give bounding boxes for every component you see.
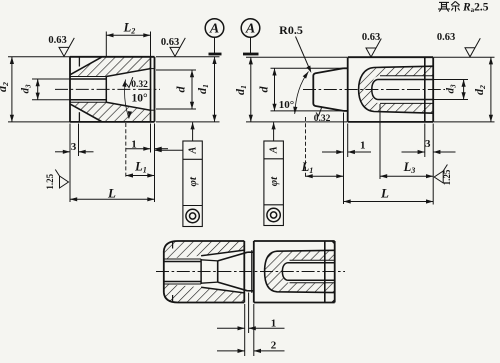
angle dimension 10deg (part 2) — [295, 72, 309, 115]
dimension d3 (part 2) — [434, 79, 468, 81]
svg-text:R0.5: R0.5 — [279, 23, 303, 37]
part 2 blind thread bore d3 — [372, 80, 378, 100]
assembly part 1 thread — [164, 258, 201, 260]
assembly part 2 thread bore — [282, 263, 287, 281]
svg-text:2: 2 — [271, 340, 277, 352]
part 2 bush outline — [359, 66, 434, 113]
part 1 section hatch lower wall — [70, 102, 150, 121]
part 2 conical boss 10deg — [313, 68, 343, 111]
concentricity tolerance frame (part 1) — [183, 141, 202, 227]
svg-text:0.63: 0.63 — [362, 32, 380, 43]
dimension d3 (part 1) — [32, 78, 70, 80]
assembly part 1 outline — [164, 241, 245, 303]
assembly socket taper — [201, 250, 244, 256]
svg-text:3: 3 — [71, 141, 77, 153]
svg-text:d: d — [257, 86, 271, 93]
svg-text:3: 3 — [425, 138, 431, 150]
angle dimension 10deg (part 1) — [125, 80, 129, 119]
svg-text:10°: 10° — [131, 92, 148, 104]
dimension d2 (part 2) — [434, 56, 495, 58]
part 1 internal thread d3 — [70, 76, 106, 78]
svg-text:0.63: 0.63 — [161, 37, 179, 48]
dimension L (part 1) — [70, 198, 155, 200]
svg-text:0.63: 0.63 — [48, 35, 66, 46]
dimension d (part 2) — [271, 67, 344, 69]
dimension L2 (part 1) — [105, 32, 107, 57]
dimension d1 (part 2) — [246, 56, 347, 58]
section marks circled A — [205, 19, 224, 38]
assembly part 2 bush hatch — [265, 250, 335, 292]
svg-text:d: d — [174, 86, 188, 93]
svg-text:1.25: 1.25 — [442, 169, 452, 185]
svg-text:Ra2.5: Ra2.5 — [462, 2, 489, 15]
part 1 section hatch upper wall — [70, 57, 150, 76]
concentricity tolerance frame (part 2) — [264, 141, 284, 226]
dimension 3 (part 2 bottom wall) — [424, 124, 426, 158]
dimension d (part 1) — [156, 69, 196, 71]
dimension d1 (part 1) — [156, 56, 220, 58]
part 1 tapered socket 10deg — [106, 69, 150, 77]
assembly part 1 hatch upper — [164, 241, 245, 259]
part 2 boss land — [344, 67, 348, 69]
svg-text:1: 1 — [271, 317, 277, 329]
svg-text:1: 1 — [360, 139, 366, 151]
svg-text:0.63: 0.63 — [437, 32, 455, 43]
roughness 0.32 on cone (part 2) — [316, 107, 322, 116]
dimension L3 (part 2) — [379, 104, 381, 179]
svg-text:1: 1 — [131, 138, 137, 150]
dimension 3 (part 1 flare length) — [69, 124, 71, 157]
svg-text:0.32: 0.32 — [131, 80, 148, 90]
assembly part 2 cone seated — [201, 260, 218, 261]
part 2 threaded bush local section hatch — [359, 66, 434, 113]
svg-text:L: L — [380, 185, 389, 200]
dimension 1 (part 2 land) — [343, 113, 345, 205]
svg-text:A: A — [269, 146, 280, 154]
dimension L1 (part 2) — [305, 117, 307, 179]
assembly part 2 body outline — [253, 241, 255, 303]
svg-text:φt: φt — [268, 176, 280, 186]
svg-text:10°: 10° — [279, 99, 294, 111]
svg-text:A: A — [188, 147, 199, 155]
note: qi-yu Ra2.5 (surface roughness, rest) — [438, 2, 450, 12]
svg-text:A: A — [209, 22, 219, 37]
dimension 1 (part 1 mouth land) — [150, 124, 152, 153]
part 1 centerline — [55, 88, 160, 90]
dimension L1 (part 1) — [125, 123, 127, 179]
svg-text:L: L — [107, 185, 116, 200]
part 2 body outline — [347, 57, 349, 122]
svg-text:A: A — [245, 22, 255, 37]
dimension L (part 2) — [432, 124, 434, 205]
assembly part 1 hatch lower — [164, 284, 245, 303]
svg-text:φt: φt — [187, 176, 199, 186]
part 1 body outline — [70, 56, 155, 58]
svg-text:1.25: 1.25 — [45, 173, 55, 189]
assembly gap dimensions 1 and 2 — [244, 304, 246, 356]
assembly centerline — [156, 271, 345, 273]
part 2 centerline — [303, 89, 445, 91]
dimension d2 (part 1) — [8, 56, 70, 58]
roughness 1.25 mark (part 2) — [434, 171, 443, 183]
svg-text:d2: d2 — [0, 82, 10, 92]
roughness 0.32 on taper (part 1) — [126, 77, 133, 87]
roughness 1.25 mark (part 1) — [60, 176, 69, 188]
